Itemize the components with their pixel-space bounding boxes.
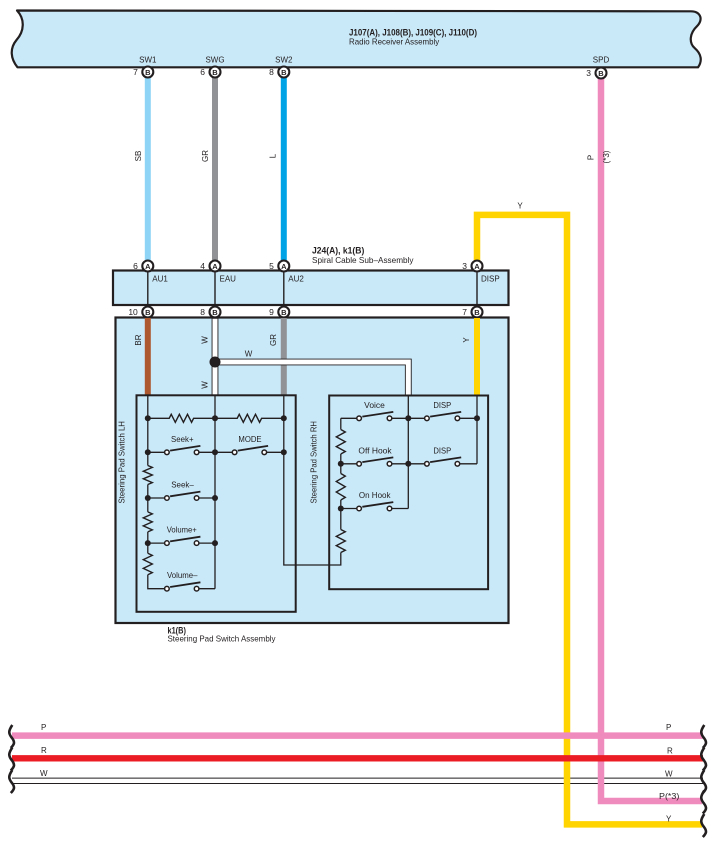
radio receiver assembly band J107-J110 — [12, 11, 701, 68]
svg-text:A: A — [281, 262, 287, 271]
resistor LH row1 right — [215, 414, 284, 422]
svg-text:A: A — [474, 262, 480, 271]
svg-text:SB: SB — [134, 151, 143, 162]
svg-text:W: W — [201, 381, 210, 389]
node RH row2 left — [338, 461, 344, 467]
svg-text:7: 7 — [462, 307, 467, 317]
svg-text:Volume–: Volume– — [167, 571, 198, 580]
svg-text:B: B — [281, 308, 287, 317]
switch Seek- — [148, 481, 215, 501]
svg-text:GR: GR — [269, 334, 278, 346]
resistor RH rail r3 — [340, 509, 342, 530]
svg-text:10: 10 — [128, 307, 138, 317]
bottom wire P — [12, 732, 703, 739]
node RH row1 Y — [474, 415, 480, 421]
node row3 left — [145, 495, 151, 501]
wire SB — [145, 77, 151, 261]
svg-text:Radio Receiver Assembly: Radio Receiver Assembly — [349, 36, 440, 46]
svg-text:3: 3 — [462, 261, 467, 271]
svg-text:6: 6 — [133, 261, 138, 271]
svg-text:W: W — [245, 350, 253, 359]
LH middle rail — [214, 395, 216, 588]
bottom wire W outlined — [12, 778, 703, 784]
switch DISP row1 — [408, 401, 477, 421]
svg-text:A: A — [145, 262, 151, 271]
steering pad switch assembly box k1(B) — [116, 318, 509, 624]
svg-text:SPD: SPD — [593, 56, 610, 65]
svg-text:8: 8 — [200, 307, 205, 317]
spiral cable sub-assembly box — [113, 271, 509, 306]
svg-text:Steering Pad Switch RH: Steering Pad Switch RH — [310, 421, 319, 504]
svg-text:AU2: AU2 — [288, 275, 304, 284]
bottom wire R — [12, 755, 703, 761]
svg-text:DISP: DISP — [433, 401, 451, 410]
node row2 left — [145, 449, 151, 455]
svg-text:P: P — [41, 723, 46, 732]
node row2 mid — [212, 449, 218, 455]
switch Voice — [341, 401, 409, 421]
tear marks left — [9, 725, 14, 748]
svg-text:On Hook: On Hook — [359, 491, 392, 500]
svg-text:GR: GR — [201, 150, 210, 162]
wire P from SPD down to bottom right exit — [601, 77, 702, 801]
RH Y stub row2 — [460, 463, 477, 465]
svg-text:EAU: EAU — [220, 275, 237, 284]
svg-text:(*3): (*3) — [602, 150, 611, 163]
svg-text:BR: BR — [134, 334, 143, 345]
node RH row2 W — [405, 461, 411, 467]
node RH row3 left — [338, 506, 344, 512]
wire BR — [145, 318, 151, 396]
svg-text:Y: Y — [462, 337, 471, 343]
svg-text:9: 9 — [269, 307, 274, 317]
svg-text:5: 5 — [269, 261, 274, 271]
svg-text:B: B — [145, 308, 151, 317]
svg-text:W: W — [40, 769, 48, 778]
RH left rail with resistors — [340, 418, 342, 429]
svg-text:SW2: SW2 — [275, 56, 293, 65]
node row4 left — [145, 540, 151, 546]
resistor RH rail r2 — [336, 474, 345, 500]
wire link to LH GR rail — [329, 553, 341, 566]
svg-text:R: R — [41, 746, 47, 755]
svg-text:B: B — [212, 68, 218, 77]
node row1 left — [145, 415, 151, 421]
divider AU2 — [283, 271, 285, 306]
svg-text:AU1: AU1 — [152, 275, 168, 284]
steering pad switch LH box — [137, 395, 296, 612]
svg-text:R: R — [667, 747, 673, 756]
svg-text:3: 3 — [586, 68, 591, 78]
svg-text:6: 6 — [200, 67, 205, 77]
svg-text:SWG: SWG — [205, 56, 224, 65]
resistor LH row1 left — [148, 414, 215, 422]
svg-text:DISP: DISP — [481, 275, 500, 284]
svg-text:W: W — [665, 770, 673, 779]
resistor LH rail r3 — [143, 553, 152, 575]
svg-text:8: 8 — [269, 67, 274, 77]
node row2 right — [281, 449, 287, 455]
node row4 mid — [212, 540, 218, 546]
svg-text:B: B — [212, 308, 218, 317]
svg-text:Volume+: Volume+ — [167, 526, 197, 535]
svg-text:Off Hook: Off Hook — [358, 446, 392, 455]
svg-text:B: B — [281, 68, 287, 77]
LH right rail (GR) down and out to RH box resistor chain — [284, 395, 330, 565]
steering pad switch RH box — [329, 396, 488, 590]
svg-text:Voice: Voice — [364, 401, 385, 410]
svg-text:Spiral Cable Sub–Assembly: Spiral Cable Sub–Assembly — [312, 255, 414, 265]
junction W — [210, 357, 221, 368]
wire Y (lower) — [474, 318, 480, 396]
LH left rail — [148, 395, 165, 588]
svg-text:B: B — [474, 308, 480, 317]
tear marks right — [701, 725, 706, 748]
resistor RH rail r1 — [336, 430, 345, 455]
switch On Hook — [341, 491, 409, 511]
switch MODE — [215, 435, 284, 455]
svg-text:4: 4 — [200, 261, 205, 271]
switch DISP row2 — [408, 446, 461, 466]
svg-text:Y: Y — [666, 815, 672, 824]
wire GR (SWG) — [212, 77, 218, 261]
svg-text:W: W — [201, 336, 210, 344]
wire L — [281, 77, 287, 261]
wire W outlined white — [214, 318, 409, 396]
svg-text:Seek+: Seek+ — [171, 435, 194, 444]
resistor LH rail r2 — [143, 512, 152, 532]
RH Y rail — [476, 396, 478, 464]
wire GR (lower) — [281, 318, 287, 396]
svg-text:DISP: DISP — [433, 446, 451, 455]
svg-text:7: 7 — [133, 67, 138, 77]
svg-text:B: B — [145, 68, 151, 77]
svg-text:L: L — [268, 153, 277, 158]
node row3 mid — [212, 495, 218, 501]
svg-text:B: B — [598, 69, 604, 78]
divider EAU — [214, 271, 216, 306]
divider DISP — [476, 271, 478, 306]
divider AU1 — [147, 271, 149, 306]
svg-text:P: P — [666, 723, 671, 732]
svg-text:A: A — [212, 262, 218, 271]
resistor LH rail r1 — [143, 466, 152, 485]
svg-text:P: P — [587, 155, 596, 160]
svg-text:Seek–: Seek– — [171, 481, 194, 490]
switch Volume+ — [148, 526, 215, 546]
svg-text:P(*3): P(*3) — [659, 792, 680, 801]
svg-text:MODE: MODE — [238, 435, 261, 444]
switch Volume- — [165, 571, 215, 591]
node row1 mid — [212, 415, 218, 421]
RH W rail — [407, 396, 409, 509]
svg-text:Steering Pad Switch LH: Steering Pad Switch LH — [118, 421, 127, 504]
svg-text:Y: Y — [517, 202, 523, 211]
switch Seek+ — [148, 435, 215, 455]
node row1 right — [281, 415, 287, 421]
svg-text:SW1: SW1 — [139, 56, 157, 65]
node RH row1 W — [405, 415, 411, 421]
switch Off Hook — [341, 446, 409, 466]
wire Y from DISP pin 3(A) up and over to bottom right exit — [477, 215, 702, 825]
svg-text:Steering Pad Switch Assembly: Steering Pad Switch Assembly — [168, 634, 277, 644]
